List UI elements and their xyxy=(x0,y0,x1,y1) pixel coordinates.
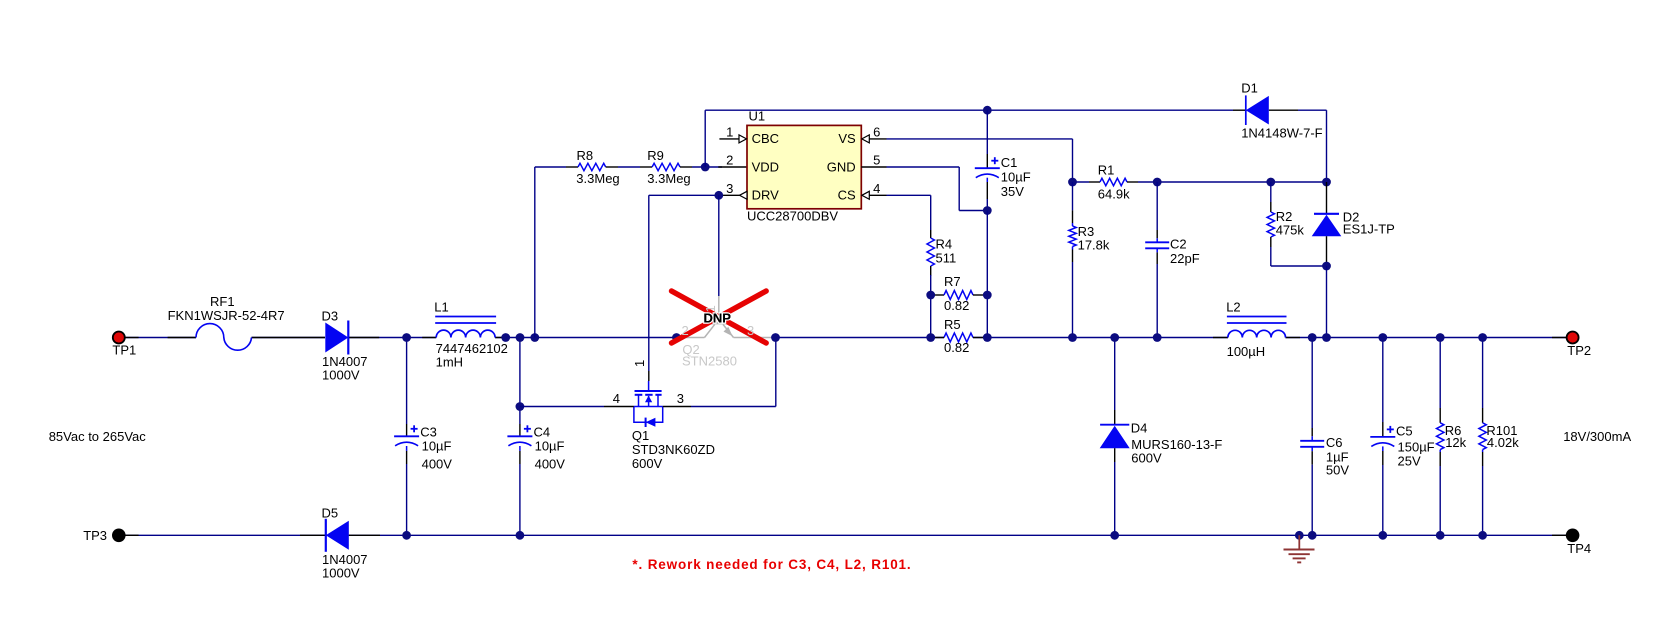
svg-text:22pF: 22pF xyxy=(1170,251,1200,266)
svg-text:C4: C4 xyxy=(534,425,551,440)
svg-text:0.82: 0.82 xyxy=(944,298,969,313)
svg-text:D3: D3 xyxy=(322,308,339,323)
svg-text:UCC28700DBV: UCC28700DBV xyxy=(747,209,838,224)
svg-text:10µF: 10µF xyxy=(422,439,452,454)
svg-text:VS: VS xyxy=(838,131,856,146)
svg-text:100µH: 100µH xyxy=(1227,344,1266,359)
svg-text:12k: 12k xyxy=(1445,435,1466,450)
svg-text:RF1: RF1 xyxy=(210,294,235,309)
svg-text:400V: 400V xyxy=(535,457,566,472)
svg-text:4: 4 xyxy=(613,391,620,406)
svg-text:L2: L2 xyxy=(1226,300,1240,315)
svg-text:3: 3 xyxy=(677,391,684,406)
svg-text:C3: C3 xyxy=(420,425,437,440)
svg-text:GND: GND xyxy=(827,159,856,174)
svg-text:TP1: TP1 xyxy=(112,343,136,358)
svg-text:2: 2 xyxy=(682,323,689,338)
svg-text:1000V: 1000V xyxy=(322,566,360,581)
svg-text:*. Rework needed for C3, C4, L: *. Rework needed for C3, C4, L2, R101. xyxy=(632,557,911,572)
svg-text:25V: 25V xyxy=(1398,453,1421,468)
svg-text:CBC: CBC xyxy=(752,131,779,146)
svg-text:600V: 600V xyxy=(1131,450,1162,465)
svg-text:VDD: VDD xyxy=(752,159,779,174)
svg-text:R5: R5 xyxy=(944,317,961,332)
svg-text:ES1J-TP: ES1J-TP xyxy=(1343,222,1395,237)
svg-text:3.3Meg: 3.3Meg xyxy=(647,171,690,186)
svg-text:4: 4 xyxy=(873,181,880,196)
svg-text:1: 1 xyxy=(632,360,647,367)
svg-text:1N4148W-7-F: 1N4148W-7-F xyxy=(1241,126,1322,141)
svg-text:U1: U1 xyxy=(749,109,766,124)
svg-text:17.8k: 17.8k xyxy=(1078,238,1110,253)
svg-text:FKN1WSJR-52-4R7: FKN1WSJR-52-4R7 xyxy=(168,308,285,323)
svg-text:3.3Meg: 3.3Meg xyxy=(576,171,619,186)
svg-text:L1: L1 xyxy=(434,300,448,315)
svg-text:3: 3 xyxy=(726,181,733,196)
svg-text:CS: CS xyxy=(838,188,856,203)
svg-text:C6: C6 xyxy=(1326,435,1343,450)
svg-text:3: 3 xyxy=(747,323,754,338)
svg-text:6: 6 xyxy=(873,125,880,140)
svg-text:85Vac to 265Vac: 85Vac to 265Vac xyxy=(49,429,147,444)
svg-text:TP4: TP4 xyxy=(1567,541,1591,556)
svg-text:150µF: 150µF xyxy=(1398,440,1435,455)
svg-text:D5: D5 xyxy=(322,505,339,520)
svg-text:D1: D1 xyxy=(1241,81,1258,96)
svg-text:511: 511 xyxy=(936,250,957,265)
svg-text:5: 5 xyxy=(873,153,880,168)
svg-text:1: 1 xyxy=(726,125,733,140)
svg-text:2: 2 xyxy=(726,153,733,168)
svg-text:18V/300mA: 18V/300mA xyxy=(1563,429,1631,444)
svg-text:64.9k: 64.9k xyxy=(1098,186,1130,201)
svg-text:10µF: 10µF xyxy=(535,439,565,454)
svg-text:TP2: TP2 xyxy=(1567,343,1591,358)
svg-text:400V: 400V xyxy=(422,457,453,472)
svg-text:DRV: DRV xyxy=(752,188,780,203)
svg-text:DNP: DNP xyxy=(704,311,732,326)
svg-text:STN2580: STN2580 xyxy=(682,353,737,368)
svg-text:475k: 475k xyxy=(1276,223,1305,238)
svg-text:1000V: 1000V xyxy=(322,367,360,382)
svg-text:C2: C2 xyxy=(1170,236,1187,251)
svg-text:600V: 600V xyxy=(632,456,663,471)
svg-text:50V: 50V xyxy=(1326,463,1349,478)
svg-text:STD3NK60ZD: STD3NK60ZD xyxy=(632,442,715,457)
svg-text:D4: D4 xyxy=(1131,420,1148,435)
svg-text:C5: C5 xyxy=(1396,424,1413,439)
svg-text:C1: C1 xyxy=(1001,155,1018,170)
svg-text:10µF: 10µF xyxy=(1001,170,1031,185)
svg-text:TP3: TP3 xyxy=(83,528,107,543)
svg-text:1mH: 1mH xyxy=(436,355,463,370)
svg-text:R7: R7 xyxy=(944,274,961,289)
svg-text:R9: R9 xyxy=(647,148,664,163)
svg-text:35V: 35V xyxy=(1001,184,1024,199)
svg-text:Q1: Q1 xyxy=(632,428,649,443)
svg-text:R8: R8 xyxy=(577,148,594,163)
svg-text:4.02k: 4.02k xyxy=(1487,435,1519,450)
svg-text:0.82: 0.82 xyxy=(944,340,969,355)
svg-text:R1: R1 xyxy=(1098,163,1115,178)
